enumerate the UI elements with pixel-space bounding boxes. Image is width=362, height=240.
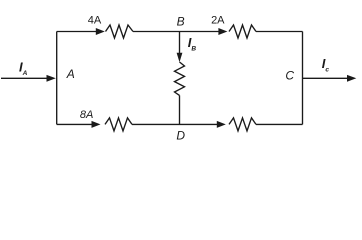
- wire: bottom rail, resistor to node D and on to arrow: [132, 123, 217, 125]
- svg-text:IB: IB: [188, 35, 197, 53]
- wire: right vertical branch (node C): [302, 32, 304, 125]
- resistor middle vertical (B-D branch): [175, 62, 185, 95]
- arrowhead: input current I_A: [47, 75, 56, 82]
- svg-text:C: C: [285, 68, 294, 82]
- svg-text:8A: 8A: [80, 109, 93, 121]
- svg-text:B: B: [177, 15, 185, 29]
- svg-text:4A: 4A: [88, 14, 102, 26]
- wire: top rail, resistor to node B and on to 2A arrow: [133, 31, 219, 33]
- wire: left vertical branch (node A): [56, 32, 58, 125]
- resistor bottom-left (8A branch): [105, 118, 132, 131]
- arrowhead: output current I_C: [347, 75, 356, 82]
- wire: output lead from node C: [303, 77, 349, 79]
- wire: top rail, resistor to right corner: [256, 31, 303, 33]
- wire: top rail, A corner to 4A arrow: [57, 31, 97, 33]
- arrowhead: 2A branch current: [218, 28, 227, 35]
- resistor top-left (4A branch): [106, 25, 134, 38]
- wire: bottom rail, A corner to 8A arrow: [57, 123, 92, 125]
- svg-text:Ic: Ic: [322, 56, 330, 74]
- svg-text:D: D: [176, 128, 185, 142]
- resistor top-right (2A branch): [229, 25, 256, 38]
- wire: middle branch from node B down: [179, 32, 181, 54]
- arrowhead: 4A branch current: [96, 28, 105, 35]
- resistor bottom-right: [229, 118, 256, 131]
- arrowhead: 8A branch current: [92, 121, 101, 128]
- wire: bottom rail, resistor to right corner: [256, 123, 303, 125]
- wire: input lead to node A: [1, 77, 49, 79]
- arrowhead: I_B down the middle branch: [177, 53, 183, 62]
- svg-text:A: A: [66, 67, 75, 81]
- arrowhead: bottom-right branch current: [217, 121, 226, 128]
- svg-text:IA: IA: [19, 59, 28, 77]
- svg-text:2A: 2A: [211, 14, 225, 26]
- wire: middle branch resistor to node D: [179, 95, 181, 124]
